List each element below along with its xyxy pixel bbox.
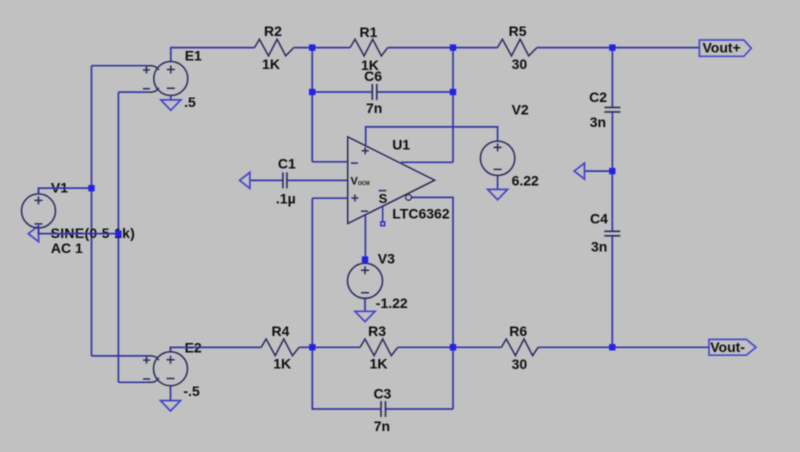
ground below E2: [161, 401, 181, 411]
wire +IN column down to node C: [311, 198, 313, 347]
wire mid node to left ground flag: [585, 170, 613, 172]
wire to op-amp -IN: [312, 161, 348, 163]
wire rail B vertical: [117, 92, 119, 382]
source V3: [348, 263, 383, 298]
wire V1 plus up and right to rail A: [39, 188, 92, 194]
svg-text:3n: 3n: [591, 238, 607, 254]
wire C6 left stub: [312, 91, 372, 93]
node C: [309, 344, 315, 350]
wire node C to R3 left: [312, 346, 360, 348]
wire node A down to C6 row: [311, 48, 313, 92]
wire rail B to E2 lower control: [118, 381, 146, 383]
svg-text:6.22: 6.22: [512, 173, 539, 189]
svg-text:C2: C2: [589, 89, 607, 105]
wire V2 bottom to ground: [497, 176, 499, 190]
node rail B / V1 minus: [115, 231, 121, 237]
svg-text:.5: .5: [184, 94, 196, 110]
wire R1 right to node B: [388, 47, 453, 49]
capacitor C4: [604, 231, 620, 236]
svg-text:Vout-: Vout-: [710, 339, 745, 355]
svg-text:C3: C3: [373, 386, 391, 402]
wire E1 lower control to rail B: [118, 91, 146, 93]
wire C4 bottom to node F: [611, 236, 613, 347]
svg-text:V3: V3: [378, 250, 395, 266]
capacitor C3: [381, 401, 386, 417]
wire E2 output overlay on text: [171, 347, 262, 351]
wire C2 bottom to mid ground node: [611, 112, 613, 171]
S pin open square: [381, 222, 385, 226]
op-amp input/power markers: [351, 147, 411, 225]
wire mid node down to C4: [611, 171, 613, 231]
V- marker: [361, 210, 368, 212]
svg-text:30: 30: [512, 56, 528, 72]
wire E2 bottom to ground: [170, 386, 172, 400]
wire C6 right stub: [377, 91, 453, 93]
svg-text:1K: 1K: [262, 56, 280, 72]
resistor R6: [501, 339, 538, 356]
svg-text:-.5: -.5: [183, 383, 200, 399]
wire V+ pin up and right to V2: [366, 127, 498, 146]
ground flag mid right column: [574, 163, 584, 179]
capacitor C6: [372, 84, 377, 100]
OUT- bubble: [406, 195, 412, 201]
wire R3 right to node D: [398, 346, 453, 348]
svg-text:Vout+: Vout+: [702, 40, 740, 56]
wire node E to Vout+ port: [612, 47, 699, 49]
wire E1 bottom to ground: [170, 96, 172, 100]
S pin lead: [382, 206, 384, 222]
V+ marker: [362, 147, 369, 154]
wire V1 minus overlay on text: [39, 228, 119, 234]
wire node B to R5 left: [453, 47, 498, 49]
capacitor C2: [604, 107, 620, 112]
node B2 (C6 right): [450, 89, 456, 95]
svg-text:7n: 7n: [366, 100, 382, 116]
node E (Vout+ tap): [609, 44, 615, 50]
resistor R2: [255, 39, 294, 56]
svg-text:AC 1: AC 1: [51, 240, 83, 256]
svg-text:C6: C6: [364, 68, 382, 84]
node F (Vout- tap): [609, 344, 615, 350]
wire R4 right to node C: [299, 346, 312, 348]
svg-text:C4: C4: [590, 210, 608, 226]
wire C3 right stub up to node D: [386, 347, 454, 409]
wire node F to Vout- port: [612, 346, 709, 348]
wire V1 plus overlay on text: [39, 188, 92, 194]
wire V- pin down to V3: [364, 214, 366, 263]
svg-text:1K: 1K: [273, 355, 291, 371]
node A2 (C6 left): [309, 89, 315, 95]
wire OUT+ to feedback column: [401, 161, 453, 163]
wire R6 right to node F: [538, 346, 612, 348]
wire node A to R1 left: [312, 47, 350, 49]
svg-text:R1: R1: [360, 24, 378, 40]
node V3 top: [362, 256, 368, 262]
node A: [309, 44, 315, 50]
wire node D to R6 left: [453, 346, 501, 348]
wire rail A to E2 upper control: [92, 355, 147, 357]
svg-text:E1: E1: [185, 48, 202, 64]
S-bar overline: [379, 190, 387, 192]
port Vout+: [699, 40, 751, 56]
svg-text:-1.22: -1.22: [376, 295, 408, 311]
svg-text:R2: R2: [264, 23, 282, 39]
node B: [450, 44, 456, 50]
source V2: [480, 141, 514, 175]
wire V3 bottom to ground: [364, 298, 366, 311]
svg-text:R4: R4: [272, 323, 290, 339]
node D: [450, 344, 456, 350]
wire R5 right to node E: [537, 47, 613, 49]
node rail A / V1 plus: [88, 185, 94, 191]
source E2: [143, 352, 188, 386]
wire OUT- to node D column: [411, 197, 453, 347]
wire op-amp +IN left: [312, 197, 347, 199]
wire V1 minus down and right to rail B: [39, 228, 119, 234]
capacitor C1: [283, 172, 287, 188]
svg-text:U1: U1: [392, 137, 410, 153]
svg-text:S: S: [379, 191, 388, 206]
wire node C down to C3 row: [312, 347, 381, 409]
wire node E down to C2: [611, 48, 613, 108]
svg-text:7n: 7n: [374, 418, 390, 434]
wire E2 output up and right to R4: [171, 347, 262, 351]
+IN marker: [351, 195, 358, 202]
svg-text:LTC6362: LTC6362: [392, 206, 450, 222]
svg-text:R3: R3: [368, 323, 386, 339]
resistor R3: [360, 339, 398, 356]
wire C1 left plate to ground flag: [250, 179, 283, 181]
svg-text:C1: C1: [278, 155, 296, 171]
source E1: [143, 62, 188, 96]
ground below V2: [488, 189, 508, 199]
svg-text:V2: V2: [512, 102, 529, 118]
port Vout-: [709, 339, 756, 355]
resistor R1: [350, 39, 388, 56]
ground flag left of C1: [240, 172, 250, 188]
wire R2 right to node A: [294, 47, 313, 49]
svg-text:R5: R5: [509, 23, 527, 39]
ground below E1: [161, 100, 181, 110]
resistor R4: [261, 339, 299, 356]
svg-text:30: 30: [512, 356, 528, 372]
node mid ground: [609, 168, 615, 174]
svg-text:R6: R6: [509, 323, 527, 339]
-IN marker: [351, 162, 358, 164]
svg-text:.1µ: .1µ: [276, 190, 296, 206]
wire rail A vertical: [91, 66, 93, 356]
wire node A2 down to -IN corner: [311, 92, 313, 162]
wire E1 output up and right to R2: [171, 48, 255, 62]
ground below V3: [355, 311, 375, 321]
wire E1 upper control to rail A: [92, 65, 147, 67]
svg-text:3n: 3n: [590, 114, 606, 130]
source V1 circle: [22, 194, 56, 228]
ground flag left of V1: [28, 226, 38, 242]
wire C1 right plate to VOCM pin: [287, 179, 348, 181]
op-amp U1 triangle: [348, 137, 435, 224]
svg-text:1K: 1K: [370, 355, 388, 371]
resistor R5: [498, 39, 537, 56]
wire node B down through C6 row to OUT+ level: [452, 48, 454, 163]
